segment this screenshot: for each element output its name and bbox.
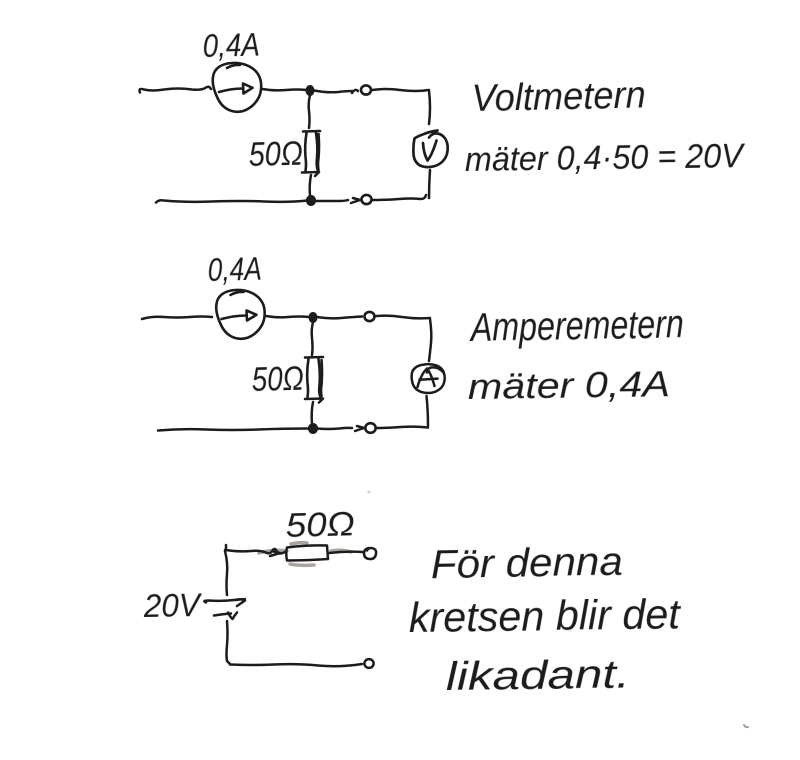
terminal (open circle, top) xyxy=(361,85,371,94)
terminal (open circle, bottom, circuit 2) xyxy=(365,423,375,433)
svg-text:50Ω: 50Ω xyxy=(251,360,304,399)
wire: current source to junction xyxy=(262,89,306,90)
svg-text:50Ω: 50Ω xyxy=(285,505,355,545)
svg-text:kretsen blir det: kretsen blir det xyxy=(408,590,682,641)
ammeter A1 xyxy=(412,364,445,393)
wire: terminal to top-right corner xyxy=(372,89,429,91)
wire: resistor R2 to bottom junction xyxy=(312,402,313,424)
wire: top-left corner to resistor R3 xyxy=(225,545,285,556)
svg-text:likadant.: likadant. xyxy=(446,652,631,699)
resistor R2 (vertical box) xyxy=(305,357,323,403)
wire: resistor R3 to terminal xyxy=(329,552,363,553)
wire: right side down to voltmeter xyxy=(429,91,430,124)
wire: bottom rail xyxy=(156,195,426,203)
wire: junction down to resistor R2 xyxy=(312,322,313,355)
svg-text:Amperemetern: Amperemetern xyxy=(469,302,684,350)
wire: voltmeter down to bottom rail xyxy=(429,170,430,198)
resistor R3 (horizontal box) xyxy=(286,545,328,560)
wire: right side down to ammeter xyxy=(429,319,431,361)
wire: junction to terminal xyxy=(314,90,358,93)
svg-text:För denna: För denna xyxy=(430,540,623,587)
current source I2 xyxy=(216,290,264,339)
wire: current source to junction xyxy=(266,316,309,317)
terminal (open circle, top, circuit 2) xyxy=(365,312,375,321)
wire: top-left lead into current source xyxy=(142,317,212,320)
wire: bottom rail (circuit 2) xyxy=(158,426,428,431)
wire: ammeter down to bottom rail xyxy=(427,396,429,426)
svg-text:0,4A: 0,4A xyxy=(207,251,262,288)
speck (bottom right) xyxy=(744,725,748,727)
svg-text:50Ω: 50Ω xyxy=(248,135,303,174)
battery 20V: short plate xyxy=(214,613,237,620)
svg-text:Voltmetern: Voltmetern xyxy=(471,74,646,120)
terminal (open circle, bottom) xyxy=(362,195,372,204)
junction node (bottom of R1) xyxy=(306,196,315,206)
junction node (bottom of R2) xyxy=(308,424,317,434)
wire: top-left lead into current source xyxy=(140,87,212,93)
wire: battery down to bottom corner xyxy=(227,621,231,664)
wire: junction down to resistor R1 xyxy=(309,95,310,128)
resistor R1 (vertical box) xyxy=(302,131,320,176)
wire: left side down to battery xyxy=(225,551,227,595)
voltmeter V1 xyxy=(413,131,447,168)
svg-text:mäter 0,4·50 = 20V: mäter 0,4·50 = 20V xyxy=(465,137,747,179)
wire: resistor R1 to bottom junction xyxy=(310,175,311,196)
junction node (top of R1) xyxy=(306,86,314,96)
battery 20V: long plate xyxy=(204,599,245,606)
wire: bottom rail (circuit 3) xyxy=(230,664,362,666)
svg-text:20V: 20V xyxy=(143,587,203,624)
wire: terminal to top-right corner xyxy=(376,316,430,319)
wire: junction to terminal xyxy=(317,317,362,319)
terminal (open circle, top, circuit 3) xyxy=(364,548,376,559)
svg-text:mäter 0,4A: mäter 0,4A xyxy=(468,363,671,407)
svg-text:0,4A: 0,4A xyxy=(202,27,260,64)
eraser smudges around R3 xyxy=(259,543,351,566)
terminal (open circle, bottom, circuit 3) xyxy=(364,659,373,668)
speck (faint, above circuit 3) xyxy=(367,490,370,493)
current source I1 xyxy=(213,63,261,112)
junction node (top of R2) xyxy=(309,313,317,323)
